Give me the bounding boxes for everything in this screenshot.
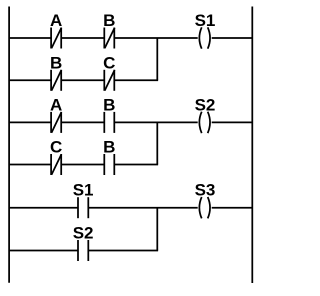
- svg-text:A: A: [50, 11, 62, 30]
- wire rung3 contact S1 to coil S3: [88, 207, 197, 209]
- wire rung2 contact A to contact B: [61, 121, 104, 123]
- wire rung1 rail to contact A: [9, 37, 51, 39]
- NO contact S2 (branch 3): [78, 240, 88, 261]
- svg-text:B: B: [103, 95, 115, 114]
- wire branch3 contact S2 to junction: [88, 250, 158, 252]
- wire branch2 contact B to junction: [114, 164, 158, 166]
- svg-text:B: B: [103, 11, 115, 30]
- coil S2: [199, 112, 210, 133]
- svg-text:B: B: [103, 138, 115, 157]
- junction branch1 vertical connector: [156, 38, 158, 80]
- wire branch2 contact C to contact B: [61, 164, 104, 166]
- svg-text:C: C: [103, 53, 115, 72]
- svg-text:A: A: [50, 95, 62, 114]
- wire branch1 rail to contact B: [9, 79, 51, 81]
- NC contact B (branch 1): [51, 70, 61, 91]
- NC contact B (rung 1): [104, 28, 114, 49]
- NO contact B (branch 2): [104, 154, 114, 175]
- wire rung1 coil S1 to right rail: [212, 37, 253, 39]
- wire rung3 rail to contact S1: [9, 207, 78, 209]
- svg-text:B: B: [50, 53, 62, 72]
- NC contact A (rung 2): [51, 112, 61, 133]
- coil S1: [199, 27, 210, 48]
- wire branch3 rail to contact S2: [9, 250, 78, 252]
- wire rung2 rail to contact A: [9, 121, 51, 123]
- svg-text:S2: S2: [73, 224, 94, 243]
- svg-text:S2: S2: [195, 95, 216, 114]
- left power rail: [8, 7, 10, 283]
- junction branch3 vertical connector: [156, 208, 158, 251]
- NO contact B (rung 2): [104, 112, 114, 133]
- wire rung1 contact B to coil S1: [114, 37, 197, 39]
- wire branch1 contact C to junction: [114, 79, 158, 81]
- svg-text:C: C: [50, 138, 62, 157]
- svg-text:S3: S3: [195, 181, 216, 200]
- NC contact A (rung 1): [51, 28, 61, 49]
- svg-text:S1: S1: [195, 11, 216, 30]
- right power rail: [251, 7, 253, 284]
- svg-text:S1: S1: [73, 181, 94, 200]
- junction branch2 vertical connector: [156, 122, 158, 164]
- wire branch2 rail to contact C: [9, 164, 51, 166]
- NO contact S1 (rung 3): [78, 197, 88, 218]
- wire rung2 contact B to coil S2: [114, 121, 197, 123]
- wire rung3 coil S3 to right rail: [212, 207, 253, 209]
- wire branch1 contact B to contact C: [61, 79, 104, 81]
- wire rung1 contact A to contact B: [61, 37, 104, 39]
- NC contact C (branch 1): [104, 70, 114, 91]
- wire rung2 coil S2 to right rail: [212, 121, 253, 123]
- coil S3: [199, 197, 210, 218]
- NC contact C (branch 2): [51, 154, 61, 175]
